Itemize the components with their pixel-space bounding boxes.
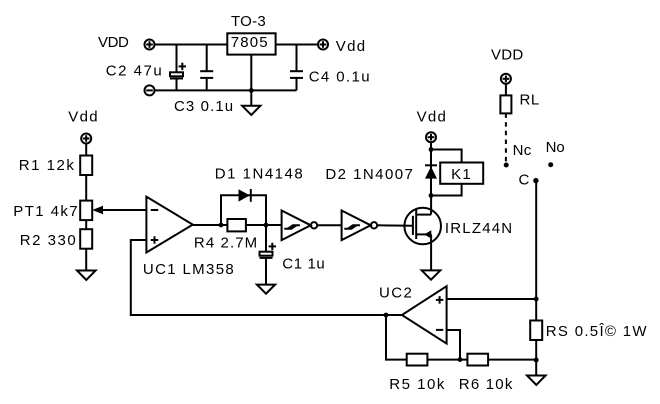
svg-text:No: No (546, 139, 565, 156)
svg-text:UC2: UC2 (379, 284, 413, 301)
svg-text:C1 1u: C1 1u (282, 255, 325, 272)
svg-text:7805: 7805 (231, 34, 269, 51)
svg-text:R1 12k: R1 12k (19, 157, 76, 174)
svg-text:R4 2.7M: R4 2.7M (194, 235, 258, 252)
svg-text:VDD: VDD (98, 34, 129, 51)
svg-text:D2 1N4007: D2 1N4007 (325, 166, 414, 183)
svg-text:IRLZ44N: IRLZ44N (445, 220, 513, 237)
svg-text:D1 1N4148: D1 1N4148 (215, 165, 304, 182)
svg-text:K1: K1 (451, 166, 472, 183)
svg-text:VDD: VDD (491, 46, 524, 63)
svg-text:PT1 4k7: PT1 4k7 (13, 203, 79, 220)
svg-text:RS 0.5Î© 1W: RS 0.5Î© 1W (546, 323, 648, 340)
svg-text:C3 0.1u: C3 0.1u (174, 98, 234, 115)
svg-text:R5 10k: R5 10k (389, 376, 446, 393)
svg-text:Vdd: Vdd (336, 38, 367, 55)
svg-text:Vdd: Vdd (68, 108, 99, 125)
svg-text:C2 47u: C2 47u (106, 62, 163, 79)
svg-text:RL: RL (520, 92, 540, 109)
svg-text:Nc: Nc (513, 142, 532, 159)
svg-text:TO-3: TO-3 (231, 13, 266, 30)
svg-text:Vdd: Vdd (417, 108, 448, 125)
svg-text:C: C (519, 172, 530, 189)
svg-text:C4 0.1u: C4 0.1u (309, 68, 371, 85)
svg-text:R2 330: R2 330 (20, 232, 77, 249)
svg-text:R6 10k: R6 10k (459, 376, 514, 393)
svg-text:UC1 LM358: UC1 LM358 (143, 261, 235, 278)
